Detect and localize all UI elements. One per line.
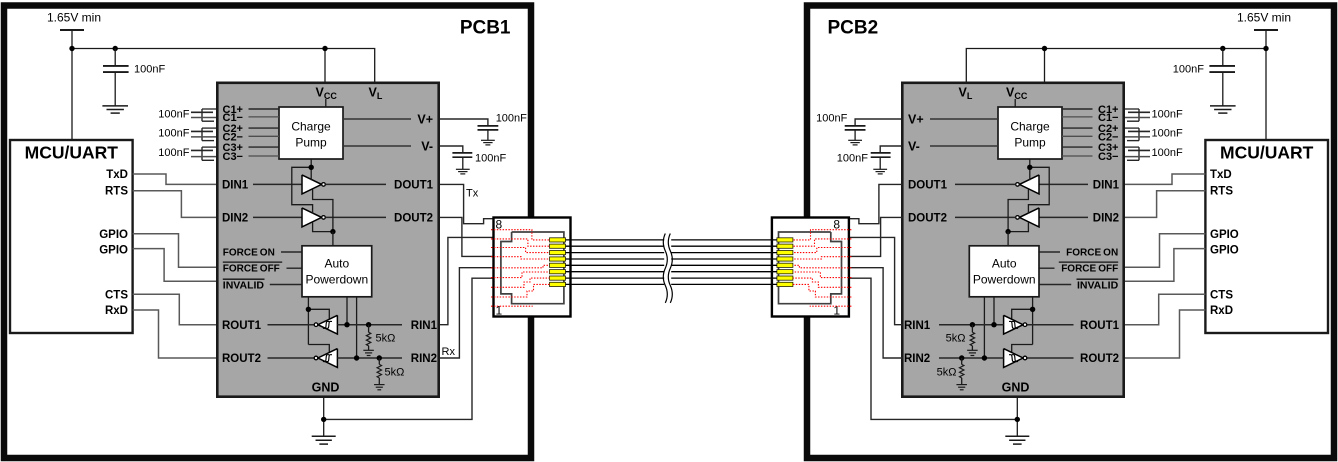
pin V&#8722; label/wire (PCB1) xyxy=(343,145,411,147)
capacitor 100nF flying C3 (PCB1) xyxy=(202,146,216,148)
pin INVALID label/wire (PCB2) xyxy=(1077,278,1119,280)
junction receiver enable (PCB2) xyxy=(1030,307,1035,312)
junction RIN2-powerdown (PCB1) xyxy=(354,355,359,360)
GND wire (PCB2) xyxy=(1016,397,1018,437)
junction bus-cap (PCB1) xyxy=(113,46,118,51)
svg-text:100nF: 100nF xyxy=(158,147,189,159)
svg-text:100nF: 100nF xyxy=(158,108,189,120)
wire GPIO to FORCEOFF (PCB2) xyxy=(1125,234,1205,268)
svg-text:Pump: Pump xyxy=(1014,136,1046,150)
svg-text:ROUT2: ROUT2 xyxy=(222,353,261,365)
svg-text:INVALID: INVALID xyxy=(223,280,265,292)
svg-text:Powerdown: Powerdown xyxy=(973,272,1036,286)
svg-text:V+: V+ xyxy=(417,112,433,126)
svg-text:100nF: 100nF xyxy=(1152,108,1183,120)
V+ cap wire (PCB2) xyxy=(855,119,901,125)
pin RIN1 label/wire (PCB1) xyxy=(337,324,402,326)
RJ45 connector body (PCB1) xyxy=(494,218,571,317)
ground symbol V- cap (PCB1) xyxy=(456,168,470,170)
svg-text:RIN1: RIN1 xyxy=(904,320,931,332)
wire sense node to auto powerdown (PCB2) xyxy=(1007,232,1009,246)
svg-text:C3−: C3− xyxy=(223,151,244,163)
wire auto powerdown to RIN2 (PCB2) xyxy=(983,297,985,358)
svg-text:1: 1 xyxy=(496,304,503,318)
svg-text:TxD: TxD xyxy=(1210,169,1232,181)
pin DOUT1 label/wire (PCB2) xyxy=(955,183,1016,185)
junction GND (PCB1) xyxy=(321,417,326,422)
svg-text:V-: V- xyxy=(908,139,920,153)
junction RIN2-resistor (PCB1) xyxy=(377,355,382,360)
wire GPIO to INVALID (PCB1) xyxy=(133,249,216,282)
capacitor 100nF V+ (PCB2) xyxy=(845,125,866,127)
wire TxD to DIN1 (PCB1) xyxy=(133,174,216,184)
svg-text:Pump: Pump xyxy=(295,136,327,150)
svg-text:5kΩ: 5kΩ xyxy=(385,367,405,379)
wire CTS to ROUT1 (PCB2) xyxy=(1125,294,1205,325)
GND wire (PCB1) xyxy=(323,397,325,437)
svg-text:CTS: CTS xyxy=(1210,289,1233,301)
svg-text:100nF: 100nF xyxy=(837,153,868,165)
charge pump block (PCB2) xyxy=(998,107,1062,159)
svg-text:FORCE ON: FORCE ON xyxy=(1066,247,1118,258)
capacitor 100nF decoupling (PCB2) xyxy=(1222,49,1224,66)
RJ45 jack outline (PCB2) xyxy=(779,232,842,304)
RS-232 transceiver IC U1 (PCB1) xyxy=(217,83,438,397)
svg-text:Rx: Rx xyxy=(442,346,456,358)
wire RTS to DIN2 (PCB2) xyxy=(1125,191,1205,218)
resistor 5k&#937; RIN1 (PCB1) xyxy=(368,325,370,333)
junction RIN1-resistor (PCB2) xyxy=(970,322,975,327)
svg-text:DIN1: DIN1 xyxy=(1093,180,1120,192)
wire DOUT1/Tx to connector (PCB1) xyxy=(440,184,494,223)
wire TxD to DIN1 (PCB2) xyxy=(1125,174,1205,184)
svg-text:DIN2: DIN2 xyxy=(1093,213,1119,225)
svg-text:GPIO: GPIO xyxy=(99,229,128,241)
svg-text:DOUT1: DOUT1 xyxy=(908,180,948,192)
svg-text:CTS: CTS xyxy=(105,289,128,301)
svg-text:DOUT2: DOUT2 xyxy=(394,213,433,225)
driver buffer DIN1 (PCB2) xyxy=(1019,175,1039,194)
receiver buffer ROUT1 (PCB1) xyxy=(318,315,338,334)
ground symbol V+ cap (PCB1) xyxy=(481,139,495,141)
VCC bus wire (PCB2) xyxy=(966,49,1266,82)
svg-text:ROUT1: ROUT1 xyxy=(1080,320,1120,332)
svg-text:RIN2: RIN2 xyxy=(904,353,930,365)
svg-text:RTS: RTS xyxy=(105,186,128,198)
VCC tap wire to IC (PCB1) xyxy=(324,49,326,82)
cable break mark xyxy=(668,234,672,303)
RJ45 jack outline (PCB1) xyxy=(501,232,564,304)
resistor 5k&#937; RIN1 (PCB2) xyxy=(971,325,973,333)
VCC bus wire (PCB1) xyxy=(72,49,375,82)
svg-text:V-: V- xyxy=(421,139,433,153)
svg-text:RxD: RxD xyxy=(105,305,128,317)
junction RIN1-powerdown (PCB2) xyxy=(991,322,996,327)
pin V+ label/wire (PCB1) xyxy=(343,118,411,120)
wire driver2 to sense node (PCB1) xyxy=(313,222,333,231)
svg-text:GND: GND xyxy=(1002,381,1030,395)
capacitor 100nF V+ (PCB1) xyxy=(478,125,499,127)
junction sense node (PCB2) xyxy=(1005,229,1010,234)
ground symbol main (PCB2) xyxy=(1005,435,1029,437)
svg-text:ROUT2: ROUT2 xyxy=(1080,353,1119,365)
capacitor 100nF V&#8722; (PCB2) xyxy=(871,152,891,154)
ground symbol V+ cap (PCB2) xyxy=(848,139,862,141)
svg-text:RxD: RxD xyxy=(1210,305,1233,317)
wire charge pump to drivers (PCB1) xyxy=(310,159,312,180)
svg-text:100nF: 100nF xyxy=(475,153,506,165)
junction bus-left (PCB1) xyxy=(69,46,74,51)
capacitor 100nF flying C2 (PCB2) xyxy=(1125,127,1139,129)
pin FORCEOFF label/wire (PCB1) xyxy=(223,261,282,263)
auto powerdown block (PCB2) xyxy=(969,246,1039,297)
wire driver1 to sense node (PCB2) xyxy=(1008,190,1028,232)
svg-text:RIN2: RIN2 xyxy=(411,353,437,365)
wire RIN2 to connector (PCB1) xyxy=(440,268,494,358)
junction sense node (PCB1) xyxy=(330,229,335,234)
junction RIN1-powerdown (PCB1) xyxy=(344,322,349,327)
svg-text:INVALID: INVALID xyxy=(1077,280,1119,292)
pin RIN2 label/wire (PCB1) xyxy=(337,357,402,359)
junction bus-cap (PCB2) xyxy=(1220,46,1225,51)
svg-text:ROUT1: ROUT1 xyxy=(222,320,262,332)
driver buffer DIN2 (PCB1) xyxy=(302,208,322,227)
wire auto powerdown to RIN1 (PCB2) xyxy=(993,297,995,325)
wire charge pump to drivers (PCB2) xyxy=(1029,159,1031,180)
MCU/UART block (PCB1) xyxy=(10,140,133,333)
wire RIN1 to connector (PCB2) xyxy=(849,237,903,324)
wire RxD to ROUT2 (PCB1) xyxy=(133,310,216,358)
svg-text:RIN1: RIN1 xyxy=(411,320,438,332)
svg-text:5kΩ: 5kΩ xyxy=(376,333,396,345)
wire DOUT1/Tx to connector (PCB2) xyxy=(849,184,903,223)
PCB1 board outline xyxy=(4,6,531,459)
svg-text:100nF: 100nF xyxy=(1152,147,1183,159)
junction bus-left (PCB2) xyxy=(1263,46,1268,51)
svg-text:100nF: 100nF xyxy=(1152,128,1183,140)
junction GND (PCB2) xyxy=(1015,417,1020,422)
RS-232 transceiver IC U1 (PCB2) xyxy=(902,83,1123,397)
svg-text:5kΩ: 5kΩ xyxy=(946,333,966,345)
pin V&#8722; label/wire (PCB2) xyxy=(930,145,998,147)
svg-text:Charge: Charge xyxy=(291,120,331,134)
svg-text:GPIO: GPIO xyxy=(1210,245,1239,257)
pin INVALID label/wire (PCB1) xyxy=(223,278,265,280)
connector internal wiring (red dotted) (PCB2) xyxy=(793,230,852,240)
pin RIN2 label/wire (PCB2) xyxy=(939,357,1004,359)
junction RIN2-resistor (PCB2) xyxy=(959,355,964,360)
receiver buffer ROUT1 (PCB2) xyxy=(1004,315,1024,334)
svg-text:DIN2: DIN2 xyxy=(222,213,248,225)
auto powerdown block (PCB1) xyxy=(302,246,372,297)
wire RTS to DIN2 (PCB1) xyxy=(133,191,216,218)
svg-text:100nF: 100nF xyxy=(134,64,165,76)
svg-text:5kΩ: 5kΩ xyxy=(937,367,957,379)
wire auto powerdown to receivers (PCB1) xyxy=(307,297,309,345)
ground symbol main (PCB1) xyxy=(312,435,336,437)
connector contact pins (PCB1) xyxy=(550,238,566,242)
charge pump block (PCB1) xyxy=(279,107,343,159)
wire auto powerdown to receivers (PCB2) xyxy=(1032,297,1034,345)
wire CTS to ROUT1 (PCB1) xyxy=(133,294,216,325)
pin RIN1 label/wire (PCB2) xyxy=(939,324,1004,326)
ground symbol below decoupling cap (PCB2) xyxy=(1210,105,1236,107)
cable conductors (8 wires) xyxy=(566,239,665,241)
svg-text:100nF: 100nF xyxy=(496,113,527,125)
capacitor 100nF V&#8722; (PCB1) xyxy=(452,152,472,154)
svg-text:1.65V min: 1.65V min xyxy=(1237,11,1291,25)
driver buffer DIN1 (PCB1) xyxy=(302,175,322,194)
svg-text:GPIO: GPIO xyxy=(1210,229,1239,241)
capacitor 100nF flying C1 (PCB2) xyxy=(1125,108,1139,110)
V+ cap wire (PCB1) xyxy=(440,119,488,125)
svg-text:Auto: Auto xyxy=(324,256,349,270)
junction bus-VCC (PCB1) xyxy=(322,46,327,51)
svg-text:C1−: C1− xyxy=(1098,112,1119,124)
svg-text:DIN1: DIN1 xyxy=(222,180,249,192)
junction RIN1-resistor (PCB1) xyxy=(366,322,371,327)
junction bus-VCC (PCB2) xyxy=(1042,46,1047,51)
capacitor 100nF flying C2 (PCB1) xyxy=(202,127,216,129)
PCB2 board outline xyxy=(807,6,1334,459)
pin DOUT2 label/wire (PCB1) xyxy=(325,216,386,218)
V- cap wire (PCB1) xyxy=(440,146,463,152)
wire GPIO to INVALID (PCB2) xyxy=(1125,249,1205,282)
wire auto powerdown to RIN1 (PCB1) xyxy=(346,297,348,325)
junction driver supply (PCB2) xyxy=(1027,165,1032,170)
svg-text:100nF: 100nF xyxy=(1173,64,1204,76)
svg-text:GPIO: GPIO xyxy=(99,245,128,257)
svg-text:PCB2: PCB2 xyxy=(828,18,879,39)
wire DOUT2 to connector (PCB2) xyxy=(849,217,903,256)
wire driver2 to sense node (PCB2) xyxy=(1008,222,1028,231)
svg-text:C3−: C3− xyxy=(1098,151,1119,163)
capacitor 100nF decoupling (PCB1) xyxy=(114,49,116,66)
capacitor 100nF flying C1 (PCB1) xyxy=(202,108,216,110)
ground symbol V- cap (PCB2) xyxy=(873,168,887,170)
svg-text:FORCE OFF: FORCE OFF xyxy=(223,264,280,275)
svg-text:Charge: Charge xyxy=(1010,120,1050,134)
receiver buffer ROUT2 (PCB2) xyxy=(1004,349,1024,368)
svg-text:MCU/UART: MCU/UART xyxy=(1220,143,1314,163)
svg-text:100nF: 100nF xyxy=(158,128,189,140)
svg-text:V+: V+ xyxy=(908,112,924,126)
connector internal wiring (red dotted) (PCB1) xyxy=(491,230,550,240)
wire driver1 to sense node (PCB1) xyxy=(313,190,333,232)
svg-text:DOUT2: DOUT2 xyxy=(908,213,947,225)
wire RIN1 to connector (PCB1) xyxy=(440,237,494,324)
driver buffer DIN2 (PCB2) xyxy=(1019,208,1039,227)
junction driver supply (PCB1) xyxy=(309,165,314,170)
svg-text:GND: GND xyxy=(312,381,340,395)
svg-text:100nF: 100nF xyxy=(816,113,847,125)
MCU/UART block (PCB2) xyxy=(1205,140,1328,333)
wire GPIO to FORCEOFF (PCB1) xyxy=(133,234,216,268)
VCC stub into charge pump (PCB2) xyxy=(1014,99,1016,107)
svg-text:MCU/UART: MCU/UART xyxy=(25,143,119,163)
connector contact pins (PCB2) xyxy=(777,238,793,242)
receiver buffer ROUT2 (PCB1) xyxy=(318,349,338,368)
capacitor 100nF flying C3 (PCB2) xyxy=(1125,146,1139,148)
svg-text:1: 1 xyxy=(833,304,840,318)
wire auto powerdown to RIN2 (PCB1) xyxy=(356,297,358,358)
svg-text:Auto: Auto xyxy=(992,256,1017,270)
resistor 5k&#937; RIN2 (PCB1) xyxy=(378,358,380,364)
svg-text:FORCE ON: FORCE ON xyxy=(223,247,275,258)
svg-text:DOUT1: DOUT1 xyxy=(394,180,434,192)
resistor 5k&#937; RIN2 (PCB2) xyxy=(961,358,963,364)
wire DOUT2 to connector (PCB1) xyxy=(440,217,494,256)
pin V+ label/wire (PCB2) xyxy=(930,118,998,120)
svg-text:1.65V min: 1.65V min xyxy=(47,11,101,25)
svg-text:Powerdown: Powerdown xyxy=(305,272,368,286)
pin DOUT2 label/wire (PCB2) xyxy=(955,216,1016,218)
svg-text:8: 8 xyxy=(496,217,503,231)
svg-text:PCB1: PCB1 xyxy=(460,18,511,39)
svg-text:C1−: C1− xyxy=(223,112,244,124)
wire RIN2 to connector (PCB2) xyxy=(849,268,903,358)
svg-text:FORCE OFF: FORCE OFF xyxy=(1061,264,1118,275)
ground symbol below decoupling cap (PCB1) xyxy=(102,105,128,107)
pin DOUT1 label/wire (PCB1) xyxy=(325,183,386,185)
svg-text:RTS: RTS xyxy=(1210,186,1233,198)
V- cap wire (PCB2) xyxy=(880,146,901,152)
wire RxD to ROUT2 (PCB2) xyxy=(1125,310,1205,358)
svg-text:TxD: TxD xyxy=(106,169,128,181)
svg-text:Tx: Tx xyxy=(466,188,479,200)
junction receiver enable (PCB1) xyxy=(306,307,311,312)
VCC tap wire to IC (PCB2) xyxy=(1044,49,1046,82)
RJ45 connector body (PCB2) xyxy=(772,218,849,317)
junction RIN2-powerdown (PCB2) xyxy=(982,355,987,360)
wire sense node to auto powerdown (PCB1) xyxy=(332,232,334,246)
pin FORCEOFF label/wire (PCB2) xyxy=(1059,261,1118,263)
VCC stub into charge pump (PCB1) xyxy=(325,99,327,107)
